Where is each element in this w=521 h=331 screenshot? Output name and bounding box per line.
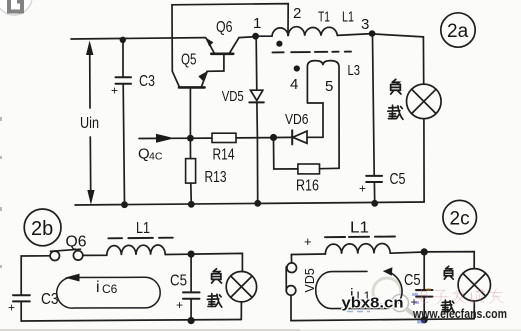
capacitor C5 2c bbox=[411, 252, 433, 320]
load label 2a bbox=[391, 79, 401, 94]
corner icon button bbox=[0, 0, 32, 15]
wire bottom rail 2a bbox=[75, 202, 424, 205]
svg-text:L1: L1 bbox=[350, 220, 369, 237]
junction VD6 node bbox=[270, 134, 277, 141]
wire node to lamp 2c bbox=[424, 252, 474, 269]
label 2c circled bbox=[443, 200, 477, 234]
wire switch to L1 2b bbox=[83, 254, 107, 256]
wire top left 2c bbox=[291, 253, 325, 256]
svg-text:Q5: Q5 bbox=[181, 52, 197, 69]
wire lamp branch upper bbox=[422, 37, 424, 84]
svg-text:T1: T1 bbox=[318, 9, 330, 26]
junction C5 bottom bbox=[371, 200, 378, 207]
resistor R16 bbox=[274, 140, 340, 174]
lamp load 2b bbox=[226, 272, 256, 302]
lamp load 2c bbox=[458, 269, 490, 301]
wire feedback box to base bbox=[172, 4, 288, 72]
inductor L1 2b bbox=[107, 245, 165, 255]
current loop iL1 2c bbox=[316, 267, 402, 308]
wire bottom rail 2b bbox=[21, 320, 241, 322]
svg-text:5: 5 bbox=[325, 78, 333, 95]
svg-text:2b: 2b bbox=[31, 218, 53, 240]
svg-text:ybx8.cn: ybx8.cn bbox=[342, 295, 404, 312]
primary polarity dot bbox=[276, 41, 282, 47]
transformer core bbox=[273, 51, 353, 54]
wire lamp bottom 2b bbox=[240, 302, 242, 320]
node 1 junction bbox=[252, 33, 259, 40]
svg-text:2: 2 bbox=[293, 5, 301, 22]
svg-text:+: + bbox=[359, 182, 366, 196]
watermark colour specks bbox=[412, 288, 431, 324]
current loop ic6 bbox=[57, 274, 160, 309]
diode VD5 2c as switch bbox=[286, 255, 296, 321]
inductor L1 2c bbox=[325, 244, 390, 254]
junction VD5 bottom bbox=[254, 200, 261, 207]
svg-text:C5: C5 bbox=[170, 273, 187, 290]
wire L1 to C5 node 2b bbox=[165, 253, 191, 255]
svg-text:2c: 2c bbox=[450, 209, 470, 230]
capacitor C3 2b bbox=[8, 295, 30, 321]
junction Q5 base bbox=[187, 135, 194, 142]
svg-text:C6: C6 bbox=[102, 282, 118, 296]
junction C3 bottom bbox=[121, 201, 128, 208]
watermark magnifier bbox=[373, 278, 420, 319]
svg-text:Uin: Uin bbox=[80, 115, 99, 132]
svg-text:VD6: VD6 bbox=[285, 111, 309, 128]
capacitor C3 bbox=[111, 40, 131, 205]
wire L1 to node 2c bbox=[390, 252, 424, 253]
svg-text:VD5: VD5 bbox=[222, 88, 244, 105]
capacitor C5 bbox=[359, 176, 382, 203]
svg-text:Q6: Q6 bbox=[66, 234, 87, 251]
junction C5 top 2b bbox=[188, 251, 195, 258]
Uin source arrows bbox=[86, 41, 95, 205]
resistor R13 bbox=[186, 141, 196, 204]
svg-text:Q6: Q6 bbox=[216, 19, 233, 36]
svg-text:C5: C5 bbox=[404, 272, 421, 289]
winding L3 bbox=[307, 61, 339, 169]
diode VD6 bbox=[276, 130, 323, 144]
junction C5 top 2c bbox=[421, 248, 428, 255]
svg-text:4C: 4C bbox=[149, 151, 163, 163]
svg-text:VD5: VD5 bbox=[303, 268, 317, 292]
transistor Q5 bbox=[172, 71, 207, 135]
svg-text:3: 3 bbox=[361, 16, 369, 33]
core dashes 2c bbox=[325, 236, 395, 239]
svg-text:+: + bbox=[176, 298, 183, 312]
svg-text:www.elecfans.com: www.elecfans.com bbox=[412, 307, 507, 321]
svg-text:Q: Q bbox=[138, 146, 150, 163]
svg-text:4: 4 bbox=[290, 76, 298, 93]
node 3 junction bbox=[369, 30, 376, 37]
wire top rail 2a bbox=[71, 38, 206, 39]
wire R14 to VD6 node bbox=[236, 137, 274, 139]
svg-text:i: i bbox=[96, 279, 100, 296]
wire bottom rail 2c bbox=[291, 319, 474, 321]
watermark elecfans chinese bbox=[416, 288, 503, 303]
junction C3 top bbox=[120, 37, 126, 43]
svg-text:R13: R13 bbox=[205, 169, 227, 186]
load label 2c bbox=[444, 266, 453, 279]
svg-text:L3: L3 bbox=[348, 62, 361, 79]
wire lamp bottom 2c bbox=[473, 301, 475, 319]
drive input wire Q4c bbox=[139, 134, 212, 143]
junction C5 bottom 2c bbox=[421, 316, 428, 323]
label 2b circled bbox=[24, 209, 61, 246]
load label 2b bbox=[212, 269, 222, 283]
svg-text:R16: R16 bbox=[296, 178, 319, 195]
svg-text:C5: C5 bbox=[390, 171, 406, 188]
wire Q5 emitter to Q6 base bbox=[207, 55, 224, 71]
secondary polarity dot bbox=[294, 65, 300, 71]
wire 2b left branch bbox=[21, 256, 49, 295]
scan bottom edge bbox=[0, 329, 300, 331]
scan left edge specks bbox=[0, 117, 2, 268]
svg-text:R14: R14 bbox=[213, 147, 235, 164]
switch Q6 2b bbox=[50, 249, 83, 260]
watermark blue dashes bbox=[347, 311, 370, 313]
svg-text:C3: C3 bbox=[139, 73, 155, 90]
core dashes 2b bbox=[108, 237, 173, 240]
junction R13 bottom bbox=[188, 201, 195, 208]
junction C5 bottom 2b bbox=[188, 317, 195, 324]
transistor Q6 bbox=[206, 37, 256, 54]
label 2a circled bbox=[441, 13, 475, 47]
svg-text:+: + bbox=[304, 234, 312, 249]
wire node3 to lamp branch bbox=[374, 34, 423, 37]
svg-text:L1: L1 bbox=[136, 220, 150, 237]
transformer T1 primary winding L1 bbox=[258, 27, 372, 36]
svg-text:L1: L1 bbox=[342, 9, 354, 26]
wire lamp branch lower bbox=[423, 119, 425, 202]
resistor R14 bbox=[212, 133, 236, 142]
capacitor C5 2b bbox=[176, 254, 200, 321]
svg-text:1: 1 bbox=[253, 15, 261, 32]
lamp load 2a bbox=[407, 84, 442, 119]
wire node3 to C5 bbox=[373, 36, 375, 175]
svg-text:+: + bbox=[111, 84, 118, 98]
svg-text:+: + bbox=[8, 301, 15, 315]
wire top to lamp 2b bbox=[191, 253, 242, 271]
svg-text:2a: 2a bbox=[447, 21, 469, 42]
svg-text:C3: C3 bbox=[41, 291, 59, 308]
diode VD5 bbox=[249, 39, 263, 203]
